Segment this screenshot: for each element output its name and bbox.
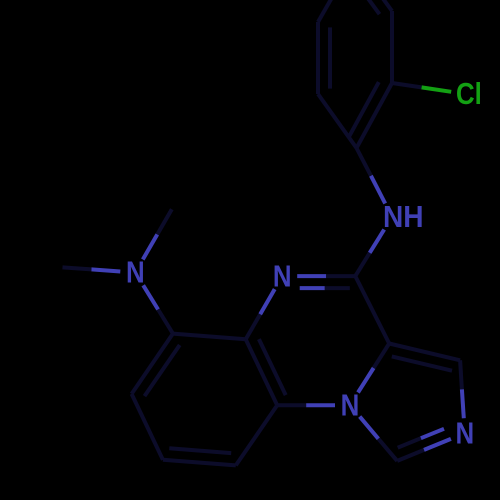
- bond NH-C1p: [371, 176, 385, 204]
- bond C2p-C3p: [390, 11, 394, 83]
- bond Nim-C2r: [462, 389, 464, 418]
- double bond C5p=C6p: [316, 22, 320, 94]
- svg-text:NH: NH: [383, 200, 424, 234]
- bond Na-Me2: [143, 234, 158, 259]
- bond Na-Me1: [91, 269, 120, 271]
- double bond Cz=Cw: [163, 460, 236, 466]
- bond C4p-C5p: [318, 0, 354, 22]
- bond C2p-Cl: [392, 83, 422, 87]
- bond C8a-N4: [374, 344, 390, 369]
- bond N4-C3b: [360, 417, 379, 439]
- double bond C3p=C4p: [354, 0, 392, 11]
- bond C6p-C1p: [318, 94, 357, 148]
- inner line of double bond C5p=C6p: [328, 27, 332, 88]
- bond Na-Cx: [143, 285, 158, 309]
- bond C8-C8a: [355, 276, 389, 343]
- double bond C2r=C8a: [389, 344, 460, 361]
- svg-text:N: N: [455, 416, 474, 450]
- double bond N7=C8: [297, 274, 326, 278]
- double bond C5=C6: [246, 339, 278, 405]
- inner line of double bond C1p=C2p: [349, 82, 379, 137]
- bond N4-C5: [306, 403, 335, 407]
- inner line of double bond C3p=C4p: [347, 0, 379, 14]
- bond C6-Cx: [173, 334, 246, 340]
- svg-text:N: N: [341, 388, 360, 422]
- bond C6-N7: [246, 314, 261, 339]
- inner line of double bond C2r=C8a: [392, 356, 452, 370]
- inner line of double bond Cx=Cy: [145, 345, 180, 396]
- double bond Cx=Cy: [132, 334, 173, 394]
- inner line of double bond N7=C8: [300, 286, 325, 290]
- inner line of double bond Cz=Cw: [169, 448, 231, 453]
- svg-text:Cl: Cl: [456, 77, 482, 111]
- double bond C3b=Nim: [397, 450, 424, 461]
- bond Cw-C5: [236, 405, 277, 465]
- bond C8-NH: [355, 253, 369, 276]
- svg-text:N: N: [126, 256, 145, 290]
- bond Cy-Cz: [132, 394, 163, 460]
- double bond C1p=C2p: [357, 83, 393, 148]
- inner line of double bond C3b=Nim: [398, 438, 421, 448]
- svg-text:N: N: [273, 259, 292, 293]
- inner line of double bond C5=C6: [259, 339, 286, 395]
